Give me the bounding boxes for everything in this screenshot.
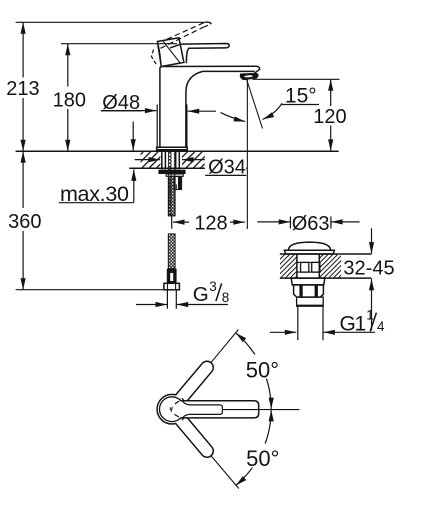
top view: ring slivers between levers <box>179 398 184 401</box>
countertop bottom surface line (main view) <box>129 167 246 169</box>
drain view: countertop hatch left <box>280 255 297 278</box>
cartridge internal edge <box>163 41 181 64</box>
drain plug rim <box>284 250 334 254</box>
svg-text:128: 128 <box>194 213 227 235</box>
svg-text:50°: 50° <box>246 357 279 382</box>
dimension line 213 <box>22 22 24 151</box>
15 deg arc right with arrow <box>263 103 282 119</box>
top view: faucet body inner circle <box>160 397 185 422</box>
drain plug dome cap <box>288 242 330 250</box>
svg-text:G: G <box>340 312 356 335</box>
faucet spout top edge <box>162 66 260 73</box>
spout aerator at tip <box>241 74 258 80</box>
drain collar below nut <box>297 297 324 306</box>
svg-text:120: 120 <box>313 106 346 128</box>
svg-text:180: 180 <box>53 89 86 111</box>
dimension line 180 <box>67 44 69 152</box>
dimension line 128 <box>173 221 245 223</box>
halo O34 <box>205 158 246 178</box>
drain rubber seal washer <box>291 278 325 285</box>
Ø63 arrow right <box>331 221 360 223</box>
svg-text:213: 213 <box>6 78 39 100</box>
G1 1/4 arrow right <box>323 331 375 333</box>
handle cartridge housing (tilted) <box>157 38 184 67</box>
countertop top surface line (main view) <box>16 150 339 152</box>
locknut collar <box>166 174 183 176</box>
drain view: countertop top line <box>280 253 372 255</box>
Ø34 arrow right at deck hole <box>182 159 209 161</box>
32-45 lower arrow to deck bottom <box>371 279 373 331</box>
top view: upper 50 deg ray <box>211 330 239 364</box>
top view: lower 50 deg arc with arrows <box>236 410 272 486</box>
top view: hidden lever edge ticks inside circle <box>174 401 179 417</box>
drain body in counter hole <box>297 254 319 278</box>
svg-text:1: 1 <box>355 312 367 335</box>
halo 50 top <box>244 355 282 379</box>
water stream vertical projection line <box>246 79 248 229</box>
faucet base plate on countertop <box>157 147 188 151</box>
svg-text:1: 1 <box>366 308 374 323</box>
top view: faucet body outer circle <box>157 394 187 424</box>
Ø63 extension line right <box>330 217 332 229</box>
halo 120 <box>312 106 348 126</box>
top view: axis midline right of lever <box>222 409 299 411</box>
drain overflow window left <box>301 262 309 272</box>
flexible supply hose upper segment (crosshatched) <box>168 176 175 216</box>
halo 50 bottom <box>244 444 283 468</box>
top view: lever horizontal (outline) <box>181 401 259 418</box>
svg-text:8: 8 <box>222 290 230 305</box>
hose tail pipe <box>167 290 176 309</box>
hose end ferrule <box>167 269 177 284</box>
lever handle raised position (dashed) lower edge <box>161 27 205 49</box>
svg-text:Ø63: Ø63 <box>292 213 330 235</box>
shank right tube below base <box>176 152 180 169</box>
Ø48 leader with arrow left <box>101 110 156 112</box>
dimension line 120 <box>330 79 332 151</box>
faucet body left edge <box>160 67 162 148</box>
G1 1/4 arrow left <box>270 331 296 333</box>
lever handle (horizontal position) <box>170 44 229 64</box>
32-45 upper arrow to deck top <box>371 228 373 253</box>
max.30 arrow below deck <box>133 169 135 202</box>
drain overflow window right <box>312 262 320 272</box>
extension line hose end (360 ref) <box>16 289 164 291</box>
faucet body right edge and spout underside with inner radius <box>186 71 255 147</box>
flexible supply hose lower segment (crosshatched) <box>168 234 175 269</box>
svg-text:4: 4 <box>377 319 385 334</box>
halo 360 <box>6 208 43 231</box>
threaded stud with bead texture <box>169 152 175 216</box>
extension line faucet axis (128 ref) <box>171 214 173 228</box>
halo 180 <box>51 87 88 110</box>
top view: lever rotated down 50 deg (capsule) <box>176 415 214 457</box>
extension line spout outlet (120 ref) <box>253 78 340 80</box>
top view: upper 50 deg arc with arrows <box>236 333 272 409</box>
15 deg arc left with arrow <box>221 113 246 122</box>
Ø63 extension line left <box>289 217 291 229</box>
halo 32-45 <box>342 257 397 277</box>
extension line top of lever (180 ref) <box>61 43 177 45</box>
top view: lever inner slot <box>189 405 223 415</box>
dimension 360 <box>22 151 24 289</box>
drain tailpipe G1 1/4 <box>298 306 323 340</box>
countertop hatch left of faucet shank (main view) <box>141 152 161 168</box>
mounting locknut under deck <box>158 170 185 174</box>
top view: lower 50 deg ray <box>211 455 239 488</box>
top view: lever rotated up 50 deg (capsule) <box>176 361 214 403</box>
svg-text:G: G <box>193 283 209 306</box>
drain view: countertop bottom line <box>280 277 372 279</box>
Ø63 arrow left <box>257 221 290 223</box>
drain locknut <box>294 285 324 297</box>
extension line top of raised lever (213 ref) <box>16 21 210 23</box>
fixing stud block <box>174 177 182 190</box>
halo 128 <box>189 212 230 233</box>
raised cartridge outline (dashed) <box>151 50 156 65</box>
Ø48 extension line left <box>156 105 158 148</box>
G3/8 arrow right <box>177 304 228 306</box>
cartridge internal curve <box>158 45 161 67</box>
svg-text:32-45: 32-45 <box>343 258 394 280</box>
svg-text:360: 360 <box>8 211 41 233</box>
halo 213 <box>5 78 41 99</box>
max.30 arrow above deck <box>132 122 134 151</box>
drain view: countertop hatch right <box>320 255 341 278</box>
countertop hatch right of faucet shank (main view) <box>182 152 205 168</box>
svg-text:3: 3 <box>209 279 217 294</box>
raised lever tip (dashed) <box>205 21 212 27</box>
Ø48 extension line right <box>186 105 188 148</box>
hose end nut G3/8 <box>164 283 180 290</box>
lever handle raised position (dashed) upper edge <box>167 21 208 39</box>
Ø48 arrow right <box>188 110 216 112</box>
G3/8 arrow left <box>136 304 167 306</box>
shank left tube below base <box>162 152 166 169</box>
top view: center mark <box>170 407 173 411</box>
svg-text:50°: 50° <box>246 446 279 471</box>
Ø34 arrow left at deck hole <box>135 159 160 161</box>
water stream 15 deg line <box>246 78 263 129</box>
